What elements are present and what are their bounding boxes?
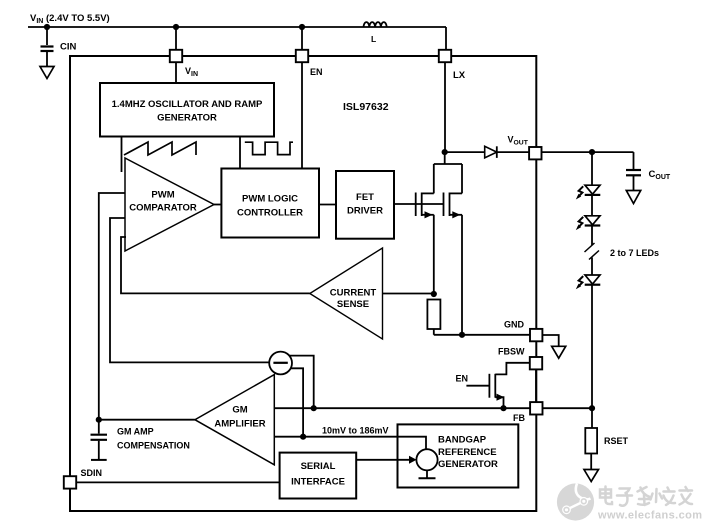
svg-text:RSET: RSET [604, 436, 629, 446]
resistor sense [427, 300, 440, 330]
pin SDIN [64, 476, 76, 488]
op-amp current sense [310, 248, 383, 339]
svg-text:INTERFACE: INTERFACE [291, 477, 345, 488]
wire gate drive [394, 203, 444, 205]
pin VIN [170, 50, 182, 62]
wire logic to driver [319, 204, 336, 206]
svg-text:CURRENT: CURRENT [330, 288, 377, 299]
inductor L [364, 22, 387, 27]
transistor FBSW NFET Q3 [489, 363, 529, 408]
pin EN [296, 50, 308, 62]
svg-text:FET: FET [356, 192, 374, 203]
wire [591, 196, 593, 216]
op-amp PWM comparator [125, 158, 214, 251]
block PWM logic controller [221, 169, 319, 238]
ground at CIN [40, 67, 54, 79]
wire comparator input from summing circle [110, 218, 269, 362]
svg-text:ISL97632: ISL97632 [343, 101, 389, 113]
block bandgap reference generator [398, 424, 519, 487]
svg-text:LX: LX [453, 70, 466, 81]
square clock waveform [245, 142, 293, 154]
pin VOUT [529, 147, 541, 159]
sawtooth ramp waveform [124, 142, 196, 155]
node junction current sense input [431, 291, 437, 297]
watermark logo [557, 483, 594, 520]
wire SDIN to serial interface [76, 481, 279, 483]
LED D3 [576, 216, 601, 230]
svg-text:SERIAL: SERIAL [301, 461, 336, 472]
svg-text:EN: EN [310, 67, 323, 77]
ground at RSET [584, 470, 599, 482]
wire top supply rail [28, 26, 446, 28]
svg-text:AMPLIFIER: AMPLIFIER [214, 419, 265, 430]
wire VIN drop [175, 27, 177, 50]
node junction summing to FB [311, 405, 317, 411]
capacitor COUT [626, 152, 641, 190]
wire reference line to bandgap [274, 437, 426, 450]
wire FBSW pin to FB pin [535, 369, 537, 402]
node junction at VIN pin [173, 24, 179, 30]
wire LX drop [445, 27, 447, 50]
wire summing to reference line [291, 368, 303, 436]
wire GND pin to ground [542, 335, 558, 346]
block FET driver [336, 171, 394, 239]
break marks chain continues [585, 243, 595, 252]
summing node circle minus [269, 352, 292, 375]
node junction LED chain top [589, 149, 595, 155]
svg-text:REFERENCE: REFERENCE [438, 447, 497, 458]
node junction at CIN [44, 24, 50, 30]
wire EN drop [301, 27, 303, 50]
svg-text:GND: GND [504, 320, 525, 330]
svg-text:CIN: CIN [60, 42, 77, 53]
wire comparator output [214, 204, 221, 206]
svg-text:SENSE: SENSE [337, 299, 369, 310]
wire LX pin down [444, 62, 446, 152]
transistor sense NFET Q2 [444, 193, 463, 335]
ground at COUT [626, 191, 640, 204]
wire LX node to diode [445, 151, 485, 153]
wire serial to bandgap with arrow [356, 459, 409, 461]
svg-text:EN: EN [456, 374, 469, 384]
svg-text:PWM: PWM [151, 190, 174, 201]
wire FB line [274, 407, 530, 409]
node junction FB line to RSET [589, 405, 595, 411]
svg-text:FBSW: FBSW [498, 347, 525, 357]
svg-text:FB: FB [513, 413, 525, 423]
node junction GM compensation [96, 417, 102, 423]
svg-text:BANDGAP: BANDGAP [438, 435, 487, 446]
pin FBSW [530, 357, 542, 369]
svg-text:GM: GM [232, 405, 247, 416]
ground at GND [552, 346, 566, 358]
wire sense input [383, 293, 434, 295]
pin GND [530, 329, 542, 341]
wire EN pin to PWM logic controller [301, 62, 303, 168]
wire GM output [99, 419, 195, 421]
IC outer box ISL97632 [70, 56, 536, 511]
resistor RSET [585, 428, 597, 454]
watermark chinese text [600, 487, 692, 506]
wire comparator input from GM output [99, 193, 125, 420]
svg-text:COMPARATOR: COMPARATOR [129, 203, 197, 214]
svg-text:www.elecfans.com: www.elecfans.com [597, 510, 702, 522]
op-amp GM amplifier [195, 375, 274, 465]
node junction LX to diode [442, 149, 448, 155]
svg-text:1.4MHZ OSCILLATOR AND RAMP: 1.4MHZ OSCILLATOR AND RAMP [112, 99, 263, 110]
svg-text:COMPENSATION: COMPENSATION [117, 441, 190, 451]
transistor power NFET Q1 [416, 152, 462, 294]
wire to GND pin [434, 334, 530, 336]
wire VIN pin to oscillator box [175, 62, 177, 83]
diode D1 [485, 146, 497, 158]
block serial interface [280, 453, 357, 499]
svg-text:L: L [371, 34, 376, 44]
oscillator block 1.4MHZ [100, 83, 274, 137]
wire osc to comparator stub [121, 137, 123, 173]
wire LED chain bottom to FB line [591, 285, 593, 428]
pin FB [530, 402, 542, 414]
node junction Q3 source to FB [500, 405, 506, 411]
svg-text:GM AMP: GM AMP [117, 427, 154, 437]
node junction summing to reference [300, 434, 306, 440]
svg-text:GENERATOR: GENERATOR [438, 459, 498, 470]
node junction at EN pin [299, 24, 305, 30]
svg-text:DRIVER: DRIVER [347, 205, 383, 216]
capacitor CIN [41, 27, 54, 66]
node junction Q2 source to gnd rail [459, 332, 465, 338]
wire EN gate [466, 385, 489, 387]
LED D2 [576, 185, 601, 199]
wire summing to FB line [289, 356, 313, 409]
svg-text:CONTROLLER: CONTROLLER [237, 207, 303, 218]
wire osc to square stub [239, 137, 241, 169]
LED D4 [576, 275, 601, 289]
wire [591, 226, 593, 245]
wire VOUT to output node [542, 151, 634, 153]
wire diode to VOUT pin [497, 151, 529, 153]
svg-text:SDIN: SDIN [81, 468, 103, 478]
capacitor GM compensation [91, 420, 108, 460]
wire comparator input from current sense [121, 237, 310, 293]
wire [591, 258, 593, 275]
svg-text:2 to 7 LEDs: 2 to 7 LEDs [610, 248, 659, 258]
bandgap source circle [416, 449, 437, 470]
wire LED chain [591, 152, 593, 185]
svg-text:10mV to 186mV: 10mV to 186mV [322, 426, 389, 436]
svg-text:PWM LOGIC: PWM LOGIC [242, 194, 298, 205]
pin LX [439, 50, 451, 62]
svg-text:GENERATOR: GENERATOR [157, 113, 217, 124]
